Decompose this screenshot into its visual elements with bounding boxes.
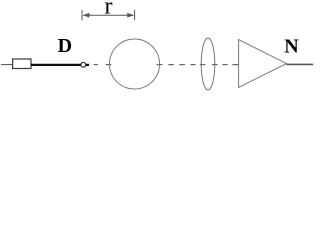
svg-text:D: D xyxy=(58,35,72,57)
svg-text:N: N xyxy=(284,36,299,58)
svg-text:r: r xyxy=(105,0,113,20)
